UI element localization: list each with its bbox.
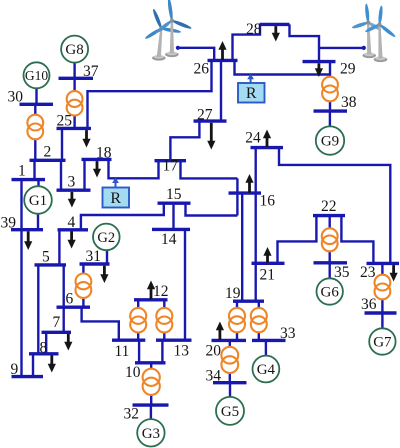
svg-text:G7: G7 (373, 335, 392, 351)
svg-text:16: 16 (260, 193, 276, 210)
svg-text:R: R (246, 85, 257, 102)
svg-text:29: 29 (340, 60, 356, 77)
svg-text:G9: G9 (321, 134, 339, 150)
svg-text:36: 36 (361, 296, 377, 313)
svg-text:26: 26 (194, 61, 210, 78)
svg-text:3: 3 (68, 174, 76, 191)
svg-text:24: 24 (245, 130, 261, 147)
svg-text:2: 2 (44, 144, 52, 161)
svg-text:35: 35 (334, 264, 350, 281)
svg-text:G8: G8 (65, 42, 83, 58)
svg-text:27: 27 (197, 107, 213, 124)
svg-text:18: 18 (96, 145, 112, 162)
svg-text:37: 37 (83, 63, 99, 80)
svg-text:G3: G3 (142, 426, 160, 442)
svg-text:25: 25 (57, 113, 73, 130)
svg-text:39: 39 (1, 215, 17, 232)
svg-text:31: 31 (86, 248, 102, 265)
svg-text:17: 17 (163, 158, 179, 175)
svg-text:15: 15 (166, 186, 182, 203)
svg-text:22: 22 (321, 198, 337, 215)
svg-text:5: 5 (42, 249, 50, 266)
svg-text:14: 14 (161, 231, 177, 248)
svg-text:20: 20 (206, 343, 222, 360)
svg-text:4: 4 (68, 214, 76, 231)
svg-text:32: 32 (124, 406, 140, 423)
svg-text:34: 34 (206, 368, 222, 385)
svg-text:12: 12 (153, 283, 169, 300)
svg-text:23: 23 (360, 264, 376, 281)
svg-text:21: 21 (260, 267, 276, 284)
svg-text:11: 11 (115, 343, 130, 360)
svg-text:R: R (110, 190, 121, 207)
svg-text:6: 6 (66, 291, 74, 308)
svg-text:38: 38 (341, 94, 357, 111)
svg-text:G2: G2 (97, 230, 115, 246)
svg-text:28: 28 (246, 21, 262, 38)
svg-text:G1: G1 (29, 193, 47, 209)
svg-text:10: 10 (125, 364, 141, 381)
svg-text:30: 30 (8, 89, 24, 106)
svg-text:G10: G10 (25, 68, 48, 83)
svg-text:13: 13 (174, 343, 190, 360)
svg-text:G4: G4 (257, 362, 276, 378)
svg-text:G5: G5 (221, 404, 239, 420)
svg-text:8: 8 (40, 340, 48, 357)
svg-text:19: 19 (225, 285, 241, 302)
svg-text:1: 1 (18, 163, 26, 180)
svg-text:33: 33 (280, 325, 296, 342)
svg-text:G6: G6 (321, 285, 340, 301)
svg-text:7: 7 (53, 314, 61, 331)
svg-text:9: 9 (11, 361, 19, 378)
